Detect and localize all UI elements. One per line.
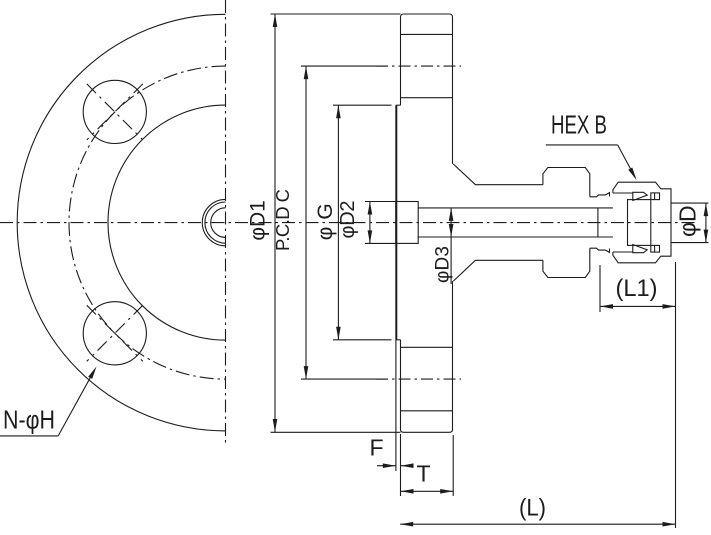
center hole circles (half) <box>202 199 225 245</box>
tube-body joint line <box>597 208 599 237</box>
back ferrule bottom <box>633 245 647 253</box>
svg-text:(L): (L) <box>519 495 546 522</box>
bolt hole axis bottom (dash-dot) <box>376 378 461 380</box>
svg-text:N-φH: N-φH <box>3 405 55 435</box>
nut hex facet box <box>628 200 651 246</box>
hub outline with chamfers <box>453 164 543 281</box>
svg-text:φD1: φD1 <box>247 200 270 240</box>
thread neck <box>590 193 610 253</box>
svg-text:HEX B: HEX B <box>551 110 607 140</box>
socket stub (phiD2) <box>396 202 418 244</box>
svg-text:φD2: φD2 <box>337 201 359 239</box>
dimension T <box>401 434 454 496</box>
front ferrule bottom <box>651 245 660 252</box>
bolt hole axis top (dash-dot) <box>376 65 461 67</box>
bolt hole lines bottom (section) <box>401 347 453 411</box>
dimension (L) <box>400 495 675 527</box>
raised face circle (half) <box>108 105 226 340</box>
label HEX B with leader <box>546 110 637 181</box>
dimension (L1) <box>600 262 676 528</box>
flange outer edge (half circle) <box>17 14 225 431</box>
svg-text:φD: φD <box>675 205 701 237</box>
svg-text:φD3: φD3 <box>433 246 454 283</box>
svg-text:(L1): (L1) <box>616 275 658 302</box>
svg-text:T: T <box>416 461 430 487</box>
back ferrule top <box>633 192 647 200</box>
nut outline <box>613 182 671 263</box>
svg-text:F: F <box>369 435 383 461</box>
dimension phiD2 <box>337 201 396 244</box>
label N-phiH with leader arrow <box>0 366 97 436</box>
dimension F <box>369 435 413 469</box>
flange disk outline (section) <box>401 14 453 432</box>
bolt hole bottom (N-phiH) <box>83 302 146 365</box>
dimension phiG <box>314 105 392 340</box>
front ferrule top <box>651 193 660 200</box>
horizontal centerline (both views) <box>0 222 697 224</box>
raised face (flange facing) <box>396 105 401 340</box>
hex body (HEX B) outline <box>543 168 590 278</box>
bolt circle P.C.D (dash-dot half circle) <box>69 66 226 379</box>
raised face extension line (F) <box>395 340 397 471</box>
dimension phiD <box>672 203 709 243</box>
dimension phiD3 <box>433 208 454 284</box>
dimension P.C.D C <box>272 66 388 379</box>
vertical centerline (front view) <box>225 0 227 443</box>
bolt hole top (N-phiH) <box>83 80 146 143</box>
dimension phiD1 <box>247 14 401 432</box>
nut thread line top <box>613 192 633 194</box>
tube (phiD3) <box>418 208 613 237</box>
svg-text:P.C.D C: P.C.D C <box>272 189 293 251</box>
nut thread line bottom <box>613 251 633 253</box>
bolt hole lines top (section) <box>401 34 453 97</box>
